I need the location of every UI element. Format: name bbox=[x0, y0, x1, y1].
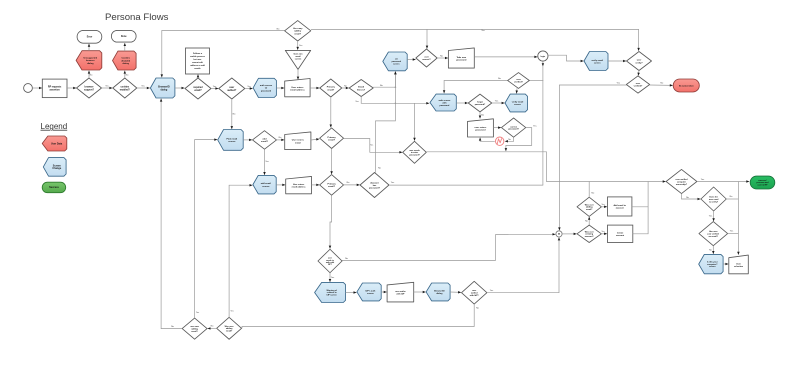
label Yes below user needs auth RP bbox=[331, 277, 335, 279]
svg-text:Add email to: Add email to bbox=[613, 204, 626, 207]
label No left of user may add diamond bbox=[277, 28, 281, 30]
wire required email up to note bbox=[197, 74, 200, 78]
decision required email? bbox=[185, 78, 211, 99]
screen auth screen with password bbox=[430, 94, 456, 111]
wire bottom right diamond No to bottom left diamond bbox=[208, 327, 217, 329]
title Persona Flows bbox=[105, 12, 169, 23]
decision Primary email? top row bbox=[320, 79, 342, 97]
svg-text:Change: Change bbox=[52, 167, 61, 170]
label No right of need verify bbox=[730, 196, 734, 198]
wire user verified No to no action taken bbox=[650, 84, 673, 87]
svg-text:add/try: add/try bbox=[294, 30, 302, 33]
annotation lightning broken link icon bbox=[496, 137, 504, 145]
label Yes below user may add diamond bbox=[299, 45, 303, 47]
label Yes after required email bbox=[213, 86, 217, 88]
label No under forgot password bbox=[481, 114, 485, 116]
svg-text:screen: screen bbox=[228, 141, 236, 143]
svg-text:screen: screen bbox=[709, 266, 716, 268]
label Yes after forgot password bbox=[495, 101, 499, 103]
label Yes under email errors bbox=[355, 101, 359, 103]
svg-text:correct?: correct? bbox=[422, 58, 431, 61]
label No above cookies enabled bbox=[126, 75, 130, 77]
wire forgot password Yes to verify email screen 2 bbox=[492, 102, 505, 105]
wire user authed to auth screen w password bbox=[245, 87, 253, 90]
input User enters email bbox=[285, 132, 311, 150]
screen Is this your computer? screen bbox=[699, 254, 723, 273]
wire user may add east long line to user verify bbox=[311, 29, 640, 51]
svg-text:password?: password? bbox=[409, 155, 420, 157]
svg-text:dialog: dialog bbox=[161, 90, 168, 92]
wire was user adding Yes to add email to account bbox=[601, 206, 607, 209]
wire user verified a right to login vertical bbox=[529, 80, 543, 82]
svg-text:dialog: dialog bbox=[122, 63, 129, 65]
svg-text:email address: email address bbox=[292, 186, 307, 189]
screen verify email screen top bbox=[584, 52, 608, 71]
label No below just verified bbox=[709, 250, 713, 252]
screen add email screen bbox=[253, 175, 276, 194]
wire cookies enabled to BrowserID dialog bbox=[137, 87, 150, 90]
svg-text:screen: screen bbox=[514, 103, 521, 106]
svg-text:email?: email? bbox=[328, 140, 336, 142]
wire create account merge right bbox=[633, 182, 648, 234]
svg-text:user in RP: user in RP bbox=[758, 185, 769, 187]
svg-text:No action taken: No action taken bbox=[679, 85, 695, 88]
svg-text:email?: email? bbox=[191, 331, 198, 333]
svg-text:Done: Done bbox=[121, 36, 127, 38]
svg-text:email address: email address bbox=[290, 90, 305, 92]
label Yes right of correct password bbox=[533, 125, 537, 127]
svg-text:selection: selection bbox=[734, 265, 744, 268]
wire user correct to take new password bbox=[437, 57, 448, 60]
decision Primary email? 2 bbox=[320, 128, 344, 149]
label No right of primary email 3 bbox=[347, 182, 351, 184]
wire user needs password No main line east bbox=[426, 152, 665, 183]
label Yes right of authed with IdP bbox=[490, 290, 494, 292]
svg-text:Success: Success bbox=[49, 186, 59, 189]
label Yes on long top line bbox=[481, 30, 485, 32]
svg-text:with: with bbox=[442, 101, 447, 104]
wire was user creating No up to was user adding bbox=[588, 217, 591, 225]
legend heading bbox=[41, 122, 68, 131]
screen Unsupported browser dialog bbox=[76, 51, 102, 70]
svg-text:email?: email? bbox=[194, 90, 202, 92]
screen verify email screen 2 bbox=[505, 94, 528, 112]
wire merge triangle down to user enters email address bbox=[297, 69, 300, 79]
merge triangle goes without email screen bbox=[285, 50, 310, 69]
wire bottom left diamond No up to BrowserID dialog bbox=[160, 99, 182, 329]
note follows mobile process bbox=[186, 48, 210, 74]
screen IdP's auth screen bbox=[357, 283, 381, 301]
decision Primary email? 3 bbox=[320, 175, 344, 196]
wire just verified Yes to right vertical bbox=[728, 233, 739, 235]
svg-text:email?: email? bbox=[261, 141, 269, 143]
label No after email errors bbox=[380, 85, 384, 87]
svg-text:screen: screen bbox=[262, 186, 270, 188]
wire need verify Yes down to has user just verified bbox=[712, 211, 715, 221]
decision user verified computer ownership? bbox=[666, 169, 697, 193]
label Yes after user authed bbox=[247, 86, 251, 88]
wire need verify No to right vertical bbox=[726, 198, 738, 200]
label No under correct password bbox=[508, 139, 511, 141]
svg-text:Unsupported: Unsupported bbox=[83, 56, 97, 59]
decision user verified? a bbox=[508, 73, 530, 89]
wire authed with IdP Yes up to junction bbox=[487, 237, 560, 292]
svg-text:verify email: verify email bbox=[512, 100, 524, 103]
terminator Error bbox=[77, 30, 102, 43]
svg-text:password?: password? bbox=[369, 187, 381, 190]
wire warning to IdP auth screen bbox=[346, 291, 357, 294]
svg-text:to verify?: to verify? bbox=[709, 200, 719, 203]
wire pick email screen to add email bbox=[243, 139, 252, 142]
wire bottom left diamond Yes up to pick email screen bbox=[195, 138, 218, 318]
svg-text:screen: screen bbox=[367, 292, 374, 295]
svg-text:an email?: an email? bbox=[709, 236, 719, 238]
wire user enters email address to primary email bbox=[310, 87, 319, 90]
screen Pick email screen bbox=[218, 130, 244, 151]
decision user verify? bbox=[627, 52, 652, 71]
svg-text:email?: email? bbox=[294, 33, 301, 35]
wire correct password No loop left bbox=[505, 137, 514, 142]
process RP requests assertion bbox=[42, 79, 67, 98]
wire ownership Yes to success bbox=[697, 180, 749, 183]
svg-text:Create: Create bbox=[617, 231, 624, 234]
process Create account bbox=[608, 225, 633, 242]
wire add email screen to user enters email address 2 bbox=[276, 184, 285, 187]
svg-text:support?: support? bbox=[84, 89, 95, 92]
wire unsupported dialog to Error terminator bbox=[88, 44, 91, 51]
label Yes left of user verified bbox=[617, 82, 621, 84]
svg-text:assertion: assertion bbox=[49, 89, 60, 92]
svg-text:password: password bbox=[456, 60, 467, 62]
decision Was user adding email? bbox=[577, 197, 601, 216]
screen BrowserID dialog bbox=[150, 78, 175, 98]
decision correct password? bbox=[501, 118, 525, 137]
label No below ownership bbox=[686, 197, 690, 199]
svg-text:address or add: address or add bbox=[190, 65, 205, 67]
decision Account has password? bbox=[360, 173, 389, 198]
svg-text:Account: Account bbox=[370, 181, 379, 184]
svg-text:enabled?: enabled? bbox=[120, 90, 131, 92]
svg-text:IdP's auth: IdP's auth bbox=[365, 289, 376, 292]
wire ownership No to does user need to verify bbox=[682, 194, 701, 201]
input User selection bbox=[729, 255, 749, 274]
svg-text:password?: password? bbox=[508, 129, 519, 131]
label Yes below add email bbox=[265, 161, 269, 163]
svg-text:with IdP?: with IdP? bbox=[470, 294, 480, 297]
wire user verify down to user verified bbox=[637, 71, 639, 76]
svg-text:Yes: Yes bbox=[196, 312, 199, 314]
wire add email Yes down to add email screen bbox=[263, 149, 266, 175]
svg-text:cookies: cookies bbox=[121, 87, 130, 89]
label Yes below need verify bbox=[709, 216, 713, 218]
decision user was adding email? bottom left bbox=[182, 318, 207, 339]
wire browser support No up to unsupported dialog bbox=[88, 71, 91, 78]
screen BrowserID dialog 2 bbox=[426, 283, 450, 301]
svg-text:user: user bbox=[424, 56, 429, 59]
svg-text:but user: but user bbox=[194, 58, 202, 61]
svg-text:Error: Error bbox=[87, 37, 93, 39]
svg-text:emails: emails bbox=[194, 68, 201, 70]
svg-text:cannot edit: cannot edit bbox=[192, 61, 203, 64]
decision user correct? bbox=[416, 49, 437, 67]
svg-text:email?: email? bbox=[328, 186, 336, 188]
wire was user adding No up to main line bbox=[588, 182, 590, 198]
svg-text:account?: account? bbox=[585, 235, 595, 238]
svg-text:with IdP: with IdP bbox=[396, 293, 405, 296]
wire just verified No down to is this your computer bbox=[712, 246, 715, 254]
wire top line drop to user correct bbox=[426, 29, 429, 48]
wire required email to user authed bbox=[211, 87, 218, 90]
input User auths with IdP bbox=[387, 282, 414, 302]
svg-text:screen: screen bbox=[295, 58, 302, 60]
decision User authed with IdP? bbox=[462, 281, 487, 304]
label Yes after ownership bbox=[701, 179, 705, 181]
wire add email to user enters email bbox=[277, 139, 285, 142]
svg-text:auth screen: auth screen bbox=[260, 84, 273, 87]
wire forgot password No down to user enters password bbox=[479, 112, 482, 119]
svg-text:ownership?: ownership? bbox=[676, 184, 688, 186]
label No left of bottom left diamond bbox=[171, 326, 175, 328]
label No right of user needs auth RP bbox=[345, 258, 349, 260]
decision user authed? bbox=[219, 78, 245, 99]
svg-text:Legend: Legend bbox=[41, 122, 68, 131]
wire login connector to verify email screen bbox=[548, 55, 584, 62]
svg-text:screen: screen bbox=[594, 61, 601, 64]
wire user needs auth RP No to junction bbox=[342, 233, 556, 260]
wire primary email to email errors bbox=[342, 87, 349, 90]
decision Was user adding email? bottom right bbox=[217, 317, 242, 339]
svg-text:password?: password? bbox=[475, 104, 486, 106]
decision browser support? bbox=[77, 78, 102, 98]
start circle bbox=[24, 84, 33, 93]
legend Success terminator bbox=[42, 182, 65, 193]
svg-text:user: user bbox=[229, 87, 234, 89]
wire user authed No down to pick email screen bbox=[231, 99, 234, 129]
svg-text:User enters: User enters bbox=[291, 86, 304, 89]
label Yes between browser support and cookies bbox=[105, 86, 109, 88]
input User enters email address 2 bbox=[286, 176, 312, 193]
process Add email to account bbox=[608, 197, 632, 216]
decision Has user just verified an email? bbox=[699, 222, 728, 246]
wire set password screen to user correct bbox=[407, 58, 416, 61]
decision forgot password? bbox=[468, 94, 492, 112]
wire auth screen with password to forgot password bbox=[456, 102, 468, 105]
svg-text:password: password bbox=[440, 104, 450, 107]
wire auth screen to user enters email address bbox=[276, 87, 284, 90]
screen set password screen bbox=[383, 52, 407, 71]
label No after add email bbox=[279, 137, 283, 139]
svg-text:user auths: user auths bbox=[395, 290, 406, 293]
svg-text:dialog: dialog bbox=[436, 293, 443, 295]
label No right of user verified bbox=[660, 82, 664, 84]
junction dot on email errors crossing bbox=[395, 86, 397, 88]
svg-text:dialog: dialog bbox=[87, 63, 94, 65]
label Yes after was user adding bbox=[601, 204, 604, 206]
connector login circle bbox=[538, 51, 548, 61]
wire user verified Yes left down to junction bbox=[558, 85, 626, 230]
label Yes right of just verified bbox=[730, 231, 734, 233]
label No left of user verified a bbox=[498, 78, 502, 80]
wire cookies disabled dialog to Done terminator bbox=[124, 43, 127, 51]
wire account has password No up to set password screen bbox=[376, 71, 397, 172]
wire junction to was user creating account bbox=[562, 233, 577, 236]
wire user verified a No to auth screen with password top bbox=[443, 81, 508, 94]
input user enters password bbox=[468, 119, 494, 137]
screen Cookies disabled dialog bbox=[113, 51, 137, 70]
svg-text:required: required bbox=[193, 87, 203, 89]
decision Does the user need to verify? bbox=[701, 187, 726, 211]
wire user auths to BrowserID dialog 2 bbox=[414, 291, 426, 294]
decision Was user creating account? bbox=[577, 225, 601, 242]
wire account has password Yes east bbox=[389, 184, 543, 186]
wire user enters email address 2 to primary email 3 bbox=[312, 184, 320, 187]
svg-text:account: account bbox=[616, 234, 624, 237]
terminator No action taken bbox=[673, 79, 699, 92]
wire user verified a down to verify email screen 2 bbox=[516, 88, 518, 93]
wire email errors Yes down right to auth screen with password bbox=[361, 97, 429, 105]
svg-text:mobile process: mobile process bbox=[190, 56, 206, 58]
wire cookies enabled No up to cookies disabled dialog bbox=[124, 71, 127, 78]
wire user needs auth RP Yes down to warning bbox=[329, 273, 332, 282]
legend Screen Change hexagon bbox=[43, 158, 66, 177]
wire is this your computer to user selection bbox=[723, 263, 728, 266]
svg-text:email?: email? bbox=[327, 89, 335, 91]
svg-text:password: password bbox=[475, 130, 486, 132]
decision cookies enabled? bbox=[113, 78, 137, 98]
decision Email Errors? bbox=[349, 80, 373, 97]
label No after primary email bbox=[344, 85, 348, 87]
label No above browser support bbox=[90, 75, 94, 77]
wire email errors No to set password screen bottom bbox=[373, 71, 396, 87]
label No above account has password bbox=[378, 168, 382, 170]
svg-text:password: password bbox=[261, 90, 272, 92]
wire verify email screen to user verify bbox=[608, 60, 626, 63]
input User enters email address bbox=[285, 79, 310, 97]
screen auth screen w/ password bbox=[253, 78, 276, 97]
svg-text:auth screen: auth screen bbox=[439, 99, 451, 102]
svg-text:verify?: verify? bbox=[635, 62, 643, 64]
screen Warning of redirect to IdP screen bbox=[315, 282, 346, 302]
wire login connector vertical down to account-has-password yes corner bbox=[542, 61, 544, 185]
decision User may add/try email? bbox=[285, 21, 311, 41]
svg-text:BrowserID: BrowserID bbox=[158, 87, 170, 89]
svg-text:screen: screen bbox=[393, 64, 400, 66]
legend User Data hexagon bbox=[42, 136, 67, 151]
wire lightning to user enters password bottom bbox=[479, 138, 495, 142]
decision user verified? right bbox=[626, 76, 649, 93]
svg-text:verified?: verified? bbox=[514, 81, 523, 84]
svg-text:verify email: verify email bbox=[591, 59, 603, 62]
label Yes between cookies and BrowserID bbox=[141, 86, 145, 88]
label No between creating and adding bbox=[585, 220, 589, 222]
label No below authed with IdP bbox=[476, 308, 480, 310]
wire take new password to login connector bbox=[474, 56, 537, 59]
svg-text:Errors?: Errors? bbox=[357, 89, 366, 91]
wire correct password Yes join main line bbox=[505, 128, 532, 152]
wire BrowserID dialog to required email bbox=[175, 87, 185, 90]
wire user may add Yes down to merge triangle bbox=[296, 41, 299, 50]
wire RP requests assertion to browser support bbox=[67, 87, 76, 90]
wire primary email 2 Yes to user needs to enter password bbox=[344, 139, 403, 154]
input Take new password bbox=[448, 48, 474, 68]
wire primary email top down to primary email 2 bbox=[330, 97, 333, 128]
svg-text:user enters: user enters bbox=[475, 126, 488, 129]
wire user enters email to primary email 2 bbox=[311, 138, 319, 140]
svg-text:email?: email? bbox=[586, 209, 593, 211]
junction circle bbox=[556, 231, 562, 237]
svg-text:user: user bbox=[516, 78, 521, 81]
label No after user correct bbox=[440, 55, 444, 57]
decision user needs to auth with RP? bbox=[318, 249, 342, 273]
svg-text:User Data: User Data bbox=[51, 142, 63, 145]
junction dot on set password vertical bbox=[395, 103, 397, 105]
svg-text:Follows a: Follows a bbox=[193, 53, 203, 55]
svg-text:User: User bbox=[736, 262, 741, 265]
label Yes above bottom left diamond bbox=[196, 312, 199, 314]
svg-text:email?: email? bbox=[226, 331, 233, 333]
label Yes right of primary email 2 bbox=[370, 145, 374, 147]
wire browser support to cookies enabled bbox=[102, 87, 113, 90]
svg-text:User enters: User enters bbox=[293, 183, 305, 186]
wire start to RP requests assertion bbox=[32, 87, 42, 90]
svg-text:user: user bbox=[636, 82, 641, 85]
svg-text:account: account bbox=[616, 207, 624, 210]
svg-text:Yes: Yes bbox=[230, 311, 233, 313]
terminator success persona and RP bbox=[750, 176, 775, 189]
wire primary email 3 to account has password bbox=[344, 184, 360, 187]
terminator Done bbox=[111, 30, 136, 42]
label Yes right of account has password bbox=[391, 182, 395, 184]
svg-text:email: email bbox=[295, 142, 301, 144]
wire BrowserID dialog 2 to user authed with IdP bbox=[450, 291, 461, 294]
wire primary email 2 down to primary email 3 bbox=[330, 149, 333, 175]
wire vertical drop to user needs to enter password bbox=[413, 103, 416, 141]
label Yes above bottom right diamond bbox=[230, 311, 233, 313]
svg-text:Persona Flows: Persona Flows bbox=[105, 12, 169, 23]
svg-text:browser: browser bbox=[85, 87, 94, 89]
label No between bottom diamonds bbox=[211, 325, 215, 327]
decision add email? bbox=[253, 131, 277, 150]
label Yes after was user creating bbox=[601, 231, 604, 233]
svg-text:authed?: authed? bbox=[227, 89, 237, 92]
svg-text:RP requests: RP requests bbox=[48, 86, 62, 89]
svg-text:IdP screen: IdP screen bbox=[327, 295, 338, 297]
wire IdP auth screen to user auths bbox=[381, 291, 387, 294]
wire authed with IdP No long left bbox=[242, 304, 474, 328]
svg-text:User may: User may bbox=[293, 27, 303, 30]
wire add email account merge right bbox=[632, 206, 648, 208]
wire right vertical to user selection bbox=[737, 182, 740, 255]
wire user may add email No to BrowserID dialog top bbox=[161, 31, 285, 78]
svg-text:verified?: verified? bbox=[634, 85, 643, 88]
wire was user creating Yes to create account bbox=[601, 233, 607, 236]
wire user enters password to correct password bbox=[493, 126, 501, 129]
decision user needs to enter password? bbox=[403, 141, 427, 163]
svg-text:User enters: User enters bbox=[292, 139, 305, 142]
label No above was user adding bbox=[591, 193, 595, 195]
wire bottom right diamond Yes up to add email screen bbox=[229, 184, 252, 317]
label No below user authed bbox=[233, 114, 237, 116]
wire primary email 3 bottom down to user needs auth RP bbox=[329, 195, 332, 248]
svg-text:BrowserID: BrowserID bbox=[434, 289, 445, 292]
